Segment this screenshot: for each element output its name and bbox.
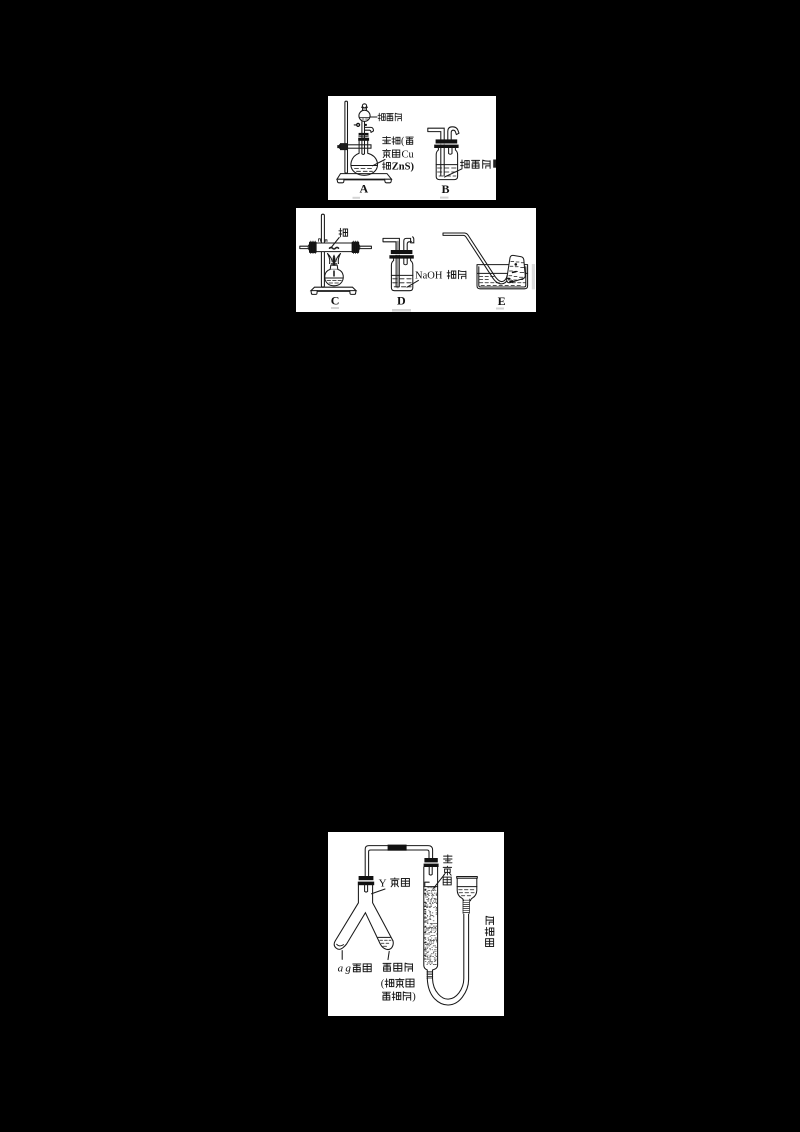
- svg-text:(: (: [381, 979, 385, 990]
- label (mixed with line2 (掺入四: [381, 978, 414, 989]
- svg-text:A: A: [360, 182, 369, 196]
- lamp body C: [325, 269, 344, 285]
- pointer line to crude zinc: [373, 160, 386, 166]
- svg-text:D: D: [397, 294, 406, 308]
- pointer for gas tube label: [434, 875, 445, 889]
- glyph defs for CJK-like label marks: [0, 0, 1, 1]
- stopcock: [356, 123, 360, 127]
- D bottle body: [391, 259, 412, 291]
- stand rod A: [345, 101, 348, 173]
- D inner outlet stub: [404, 258, 407, 264]
- svg-text:B: B: [442, 182, 450, 196]
- B liquid line: [436, 164, 457, 166]
- E tube contents dashes: [508, 261, 524, 280]
- right arm liquid line: [378, 936, 390, 938]
- D stopper bands: [391, 250, 413, 254]
- gas tube water line: [424, 886, 438, 888]
- svg-text:E: E: [498, 294, 506, 308]
- clamp A: [340, 145, 372, 148]
- stand base A: [337, 174, 392, 180]
- pointer line for dilute sulfuric acid: [370, 116, 377, 118]
- D outlet tube: [404, 237, 414, 250]
- right arm liquid dashes: [380, 940, 391, 946]
- label leveling tube 水准管 (vertical): [485, 916, 494, 946]
- scan smudge under D: [392, 309, 411, 312]
- funnel top stopper: [363, 108, 367, 111]
- stand rod C: [321, 214, 324, 287]
- label line3 氢呋喃): [382, 992, 416, 1003]
- svg-text:(: (: [401, 136, 405, 147]
- pointer distilled water: [388, 951, 389, 959]
- U-tube: [427, 914, 468, 1005]
- B outlet tube: [448, 127, 459, 140]
- leveling tube ribs: [463, 900, 470, 912]
- D inner tube (gray): [396, 242, 399, 287]
- scan smudge under C: [331, 307, 339, 309]
- scan smudge under B: [440, 197, 449, 199]
- scan smudge under E: [496, 308, 504, 310]
- svg-text:Y: Y: [379, 877, 387, 889]
- left arm tip substance: [337, 944, 344, 946]
- edge-cut character mark: [493, 160, 496, 168]
- pointer line for lithium: [331, 238, 339, 249]
- B inner outlet stub: [449, 148, 452, 154]
- lamp wick holder: [331, 264, 337, 265]
- svg-text:Cu: Cu: [402, 149, 415, 160]
- svg-text:g: g: [345, 963, 351, 975]
- tube clamps C: [309, 242, 317, 253]
- gas tube liquid speckle: [425, 888, 438, 965]
- gray strip at panel edge: [532, 264, 535, 289]
- Y-tube stopper: [359, 876, 374, 880]
- lithium sample in tube: [330, 247, 339, 249]
- E inverted test tube: [507, 255, 526, 282]
- E delivery tube: [443, 233, 511, 284]
- D inlet tube: [383, 238, 399, 250]
- label NaOH solution: [415, 270, 466, 281]
- gas tube neck ribs at bottom: [427, 971, 433, 978]
- B bottle body: [436, 148, 457, 180]
- funnel stem through stopper: [362, 122, 365, 155]
- panel 3 : Y-tube and gas measuring set: [328, 832, 504, 1016]
- svg-text:C: C: [331, 294, 340, 308]
- B stopper bands: [436, 139, 458, 143]
- label Y-tube: Y 形管: [379, 877, 410, 889]
- label dilute sulfuric acid 稀硫酸: [378, 113, 401, 121]
- panel 1 : apparatus A and B: [328, 96, 496, 200]
- pointer line for NaOH: [407, 280, 418, 287]
- D liquid line: [391, 274, 412, 276]
- clamp holder mark: [319, 239, 327, 242]
- pointer for Y-tube label: [372, 889, 385, 894]
- svg-text:NaOH: NaOH: [415, 270, 443, 281]
- lamp neck C: [330, 265, 338, 269]
- Y-tube body: [334, 885, 393, 949]
- funnel water line: [457, 886, 477, 888]
- scan smudge under A: [353, 197, 361, 199]
- panel 2 : apparatus C, D, E: [296, 208, 536, 312]
- label crude zinc line1 粗锌(含: [383, 136, 414, 147]
- pointer line for conc. sulfuric acid: [445, 169, 463, 177]
- label distilled water 蒸馏水: [383, 963, 413, 971]
- gas tube walls: [424, 867, 438, 979]
- side delivery tube A: [365, 127, 374, 132]
- label conc. sulfuric acid 浓硫酸: [461, 160, 491, 168]
- connecting tube from Y-tube to gas tube: [365, 846, 432, 876]
- alcohol lamp flame C: [328, 254, 341, 264]
- leveling funnel: [457, 877, 478, 901]
- label gas measuring tube 量气管 (vertical): [443, 855, 452, 885]
- dropping funnel bulb: [359, 110, 370, 121]
- gas tube inner stub: [429, 867, 432, 875]
- Y-tube inner stub: [365, 885, 368, 892]
- label crude zinc line2 少量Cu: [383, 149, 415, 160]
- rubber joint (black) on horizontal tube: [388, 845, 407, 851]
- pointer a g product: [341, 951, 343, 960]
- E trough: [477, 265, 528, 289]
- B inlet tube: [428, 128, 444, 139]
- label crude zinc line3 和ZnS): [382, 162, 414, 173]
- label a g product: [338, 963, 372, 975]
- E water line: [477, 272, 528, 274]
- horizontal tube C: [308, 243, 360, 252]
- side rods C: [300, 246, 372, 248]
- gas tube stopper: [424, 858, 437, 862]
- svg-text:): ): [412, 992, 416, 1003]
- stand base C: [311, 287, 356, 290]
- svg-text:a: a: [338, 963, 344, 975]
- label lithium 锂: [339, 228, 348, 236]
- B inner inlet tube: [441, 144, 444, 176]
- svg-text:ZnS): ZnS): [392, 162, 415, 173]
- water level mark in gas tube: [425, 882, 429, 885]
- E bubbles/dark marks: [515, 263, 518, 266]
- stopper A (double black band): [359, 133, 369, 136]
- lamp liquid: [325, 277, 343, 279]
- flask A liquid: [351, 165, 377, 167]
- E water dashes: [479, 276, 525, 285]
- flask A bulb: [351, 141, 378, 175]
